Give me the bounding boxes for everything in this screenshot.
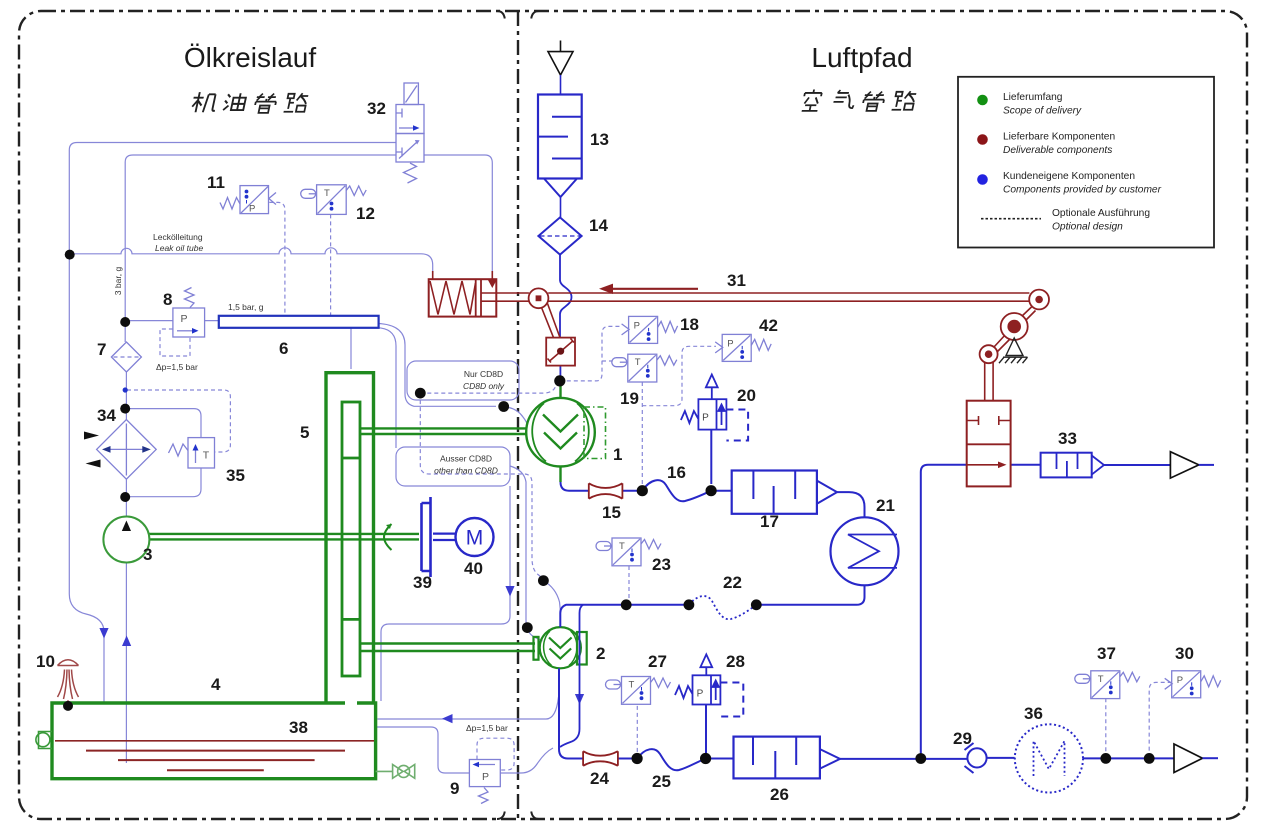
svg-text:23: 23: [652, 555, 671, 574]
svg-text:27: 27: [648, 652, 667, 671]
svg-text:T: T: [324, 188, 330, 199]
svg-text:Scope of delivery: Scope of delivery: [1003, 106, 1082, 117]
svg-text:36: 36: [1024, 704, 1043, 723]
svg-text:1: 1: [613, 445, 622, 464]
svg-text:19: 19: [620, 389, 639, 408]
svg-text:7: 7: [97, 340, 106, 359]
svg-text:5: 5: [300, 423, 309, 442]
svg-text:39: 39: [413, 573, 432, 592]
svg-text:9: 9: [450, 779, 459, 798]
svg-text:1,5 bar, g: 1,5 bar, g: [228, 302, 264, 312]
svg-text:29: 29: [953, 729, 972, 748]
svg-text:21: 21: [876, 496, 895, 515]
svg-text:CD8D only: CD8D only: [463, 381, 505, 391]
svg-text:Lieferumfang: Lieferumfang: [1003, 92, 1063, 103]
svg-text:18: 18: [680, 315, 699, 334]
svg-text:25: 25: [652, 772, 671, 791]
svg-text:4: 4: [211, 675, 221, 694]
svg-text:40: 40: [464, 559, 483, 578]
svg-text:15: 15: [602, 503, 621, 522]
svg-text:11: 11: [207, 173, 225, 192]
svg-text:other than CD8D: other than CD8D: [434, 466, 498, 476]
svg-text:38: 38: [289, 718, 308, 737]
svg-text:28: 28: [726, 652, 745, 671]
svg-text:Deliverable components: Deliverable components: [1003, 145, 1112, 156]
svg-text:22: 22: [723, 573, 742, 592]
svg-text:Ölkreislauf: Ölkreislauf: [184, 42, 316, 73]
svg-text:14: 14: [589, 216, 608, 235]
svg-text:24: 24: [590, 769, 609, 788]
svg-text:Luftpfad: Luftpfad: [811, 42, 912, 73]
svg-text:10: 10: [36, 652, 55, 671]
svg-text:37: 37: [1097, 644, 1116, 663]
svg-text:3: 3: [143, 545, 152, 564]
svg-text:Lieferbare Komponenten: Lieferbare Komponenten: [1003, 132, 1115, 143]
svg-text:P: P: [249, 204, 255, 215]
svg-text:30: 30: [1175, 644, 1194, 663]
svg-text:Optionale Ausführung: Optionale Ausführung: [1052, 208, 1150, 219]
svg-text:Optional design: Optional design: [1052, 222, 1123, 233]
svg-text:Kundeneigene Komponenten: Kundeneigene Komponenten: [1003, 171, 1135, 182]
svg-text:8: 8: [163, 290, 172, 309]
svg-text:33: 33: [1058, 429, 1077, 448]
svg-text:2: 2: [596, 644, 605, 663]
svg-text:6: 6: [279, 339, 288, 358]
svg-text:16: 16: [667, 463, 686, 482]
svg-text:Ausser CD8D: Ausser CD8D: [440, 454, 492, 464]
svg-text:P: P: [482, 771, 489, 783]
svg-text:42: 42: [759, 316, 778, 335]
svg-text:Δp=1,5 bar: Δp=1,5 bar: [466, 723, 508, 733]
svg-text:P: P: [702, 413, 709, 424]
svg-text:Components provided by custome: Components provided by customer: [1003, 185, 1162, 196]
svg-text:31: 31: [727, 271, 746, 290]
svg-text:Δp=1,5 bar: Δp=1,5 bar: [156, 362, 198, 372]
svg-text:17: 17: [760, 512, 779, 531]
svg-text:3 bar, g: 3 bar, g: [113, 267, 123, 296]
svg-text:P: P: [180, 313, 187, 325]
svg-text:13: 13: [590, 130, 609, 149]
svg-text:Nur CD8D: Nur CD8D: [464, 369, 503, 379]
svg-text:20: 20: [737, 386, 756, 405]
svg-text:35: 35: [226, 466, 245, 485]
svg-text:34: 34: [97, 406, 116, 425]
svg-text:32: 32: [367, 99, 386, 118]
svg-text:Leckölleitung: Leckölleitung: [153, 232, 203, 242]
svg-text:M: M: [466, 527, 484, 550]
svg-text:12: 12: [356, 204, 375, 223]
svg-text:Leak oil tube: Leak oil tube: [155, 243, 203, 253]
svg-text:26: 26: [770, 785, 789, 804]
svg-text:P: P: [697, 689, 704, 700]
svg-text:T: T: [203, 450, 210, 462]
